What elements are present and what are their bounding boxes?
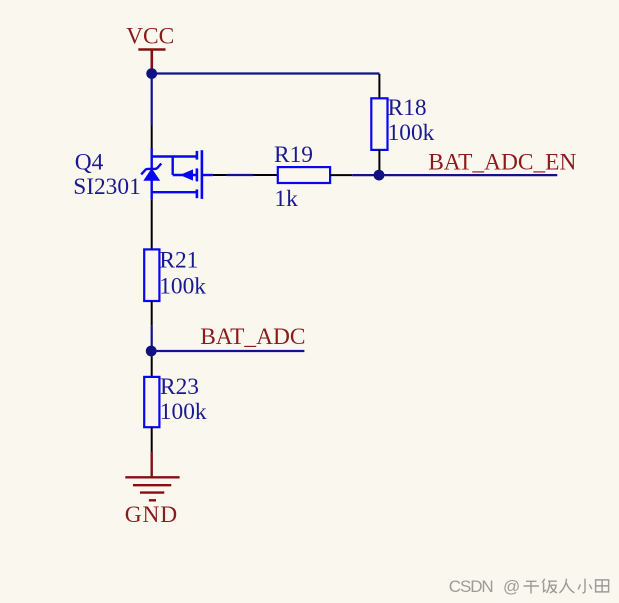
wire BAT_ADC [151,350,304,352]
ground bar 3 [140,491,164,493]
power port VCC stem [151,50,154,73]
transistor Q4 channel bar segment 2 [196,168,199,181]
watermark char 田 [596,580,609,592]
svg-text:VCC: VCC [126,23,174,49]
power port VCC bar [138,48,165,50]
pin R23.1 (top) [151,356,153,377]
pin R23.2 (bottom) [151,427,153,451]
pin Q4 drain (top, black) [151,126,153,149]
svg-text:GND: GND [125,502,178,528]
transistor Q4 left vertical (source-drain line) [150,148,152,200]
svg-text:100k: 100k [160,399,207,425]
transistor Q4 channel bar segment 3 [196,189,199,198]
ground bar 4 [149,499,156,501]
wire R19 to junction [352,174,379,176]
svg-text:1k: 1k [274,186,298,212]
ground bar 2 [133,484,171,486]
svg-text:BAT_ADC_EN: BAT_ADC_EN [428,150,576,176]
resistor R23 body [144,377,159,427]
watermark char 小 [578,579,592,593]
svg-text:CSDN: CSDN [449,577,493,596]
junction node C (BAT_ADC) [146,346,157,357]
transistor Q4 middle line to channel [173,174,197,176]
junction node B (gate/R18/R19) [374,170,385,181]
wire gate to R19 [227,174,254,176]
svg-text:R23: R23 [160,374,199,400]
svg-text:100k: 100k [388,120,435,146]
transistor Q4 gate bar [201,150,204,199]
resistor R21 body [144,249,159,301]
svg-text:SI2301: SI2301 [73,174,141,200]
wire VCC rail horizontal to R18 [152,72,380,74]
pin R18.2 (bottom) [378,150,380,172]
svg-text:@: @ [503,577,520,596]
resistor R19 body [278,167,330,183]
wire R21 to junction [151,326,153,351]
svg-text:R18: R18 [388,95,427,121]
ground bar 1 [125,476,179,478]
pin R21.2 (bottom) [151,301,153,326]
svg-text:100k: 100k [159,273,206,299]
transistor Q4 arrow (points left) [180,169,193,180]
transistor Q4 inner vertical [171,157,173,176]
junction node A (VCC rail) [146,68,157,79]
transistor Q4 body-diode cathode bar [141,164,161,175]
watermark char 人 [559,579,574,593]
transistor Q4 gate stub [202,174,213,176]
transistor Q4 bottom horizontal [152,191,197,193]
pin R19.1 (left) [254,174,278,176]
resistor R18 body [371,98,387,150]
svg-text:Q4: Q4 [75,150,104,176]
pin R19.2 (right) [330,174,352,176]
watermark char 饭 [542,579,557,593]
transistor Q4 body-diode triangle [143,168,160,181]
wire VCC rail down to Q4 [151,74,153,126]
transistor Q4 top horizontal [152,155,197,157]
pin Q4 gate (black) [213,174,227,176]
svg-text:BAT_ADC: BAT_ADC [200,324,305,350]
pin R18.1 (top) [378,74,380,99]
pin Q4 source + R21.1 (black) [151,200,153,250]
watermark char 干 [524,581,540,593]
svg-text:R21: R21 [159,248,198,274]
svg-text:R19: R19 [274,142,313,168]
wire BAT_ADC_EN [379,174,557,176]
transistor Q4 channel bar segment 1 [196,151,199,160]
ground stem (dark red) [150,452,152,478]
